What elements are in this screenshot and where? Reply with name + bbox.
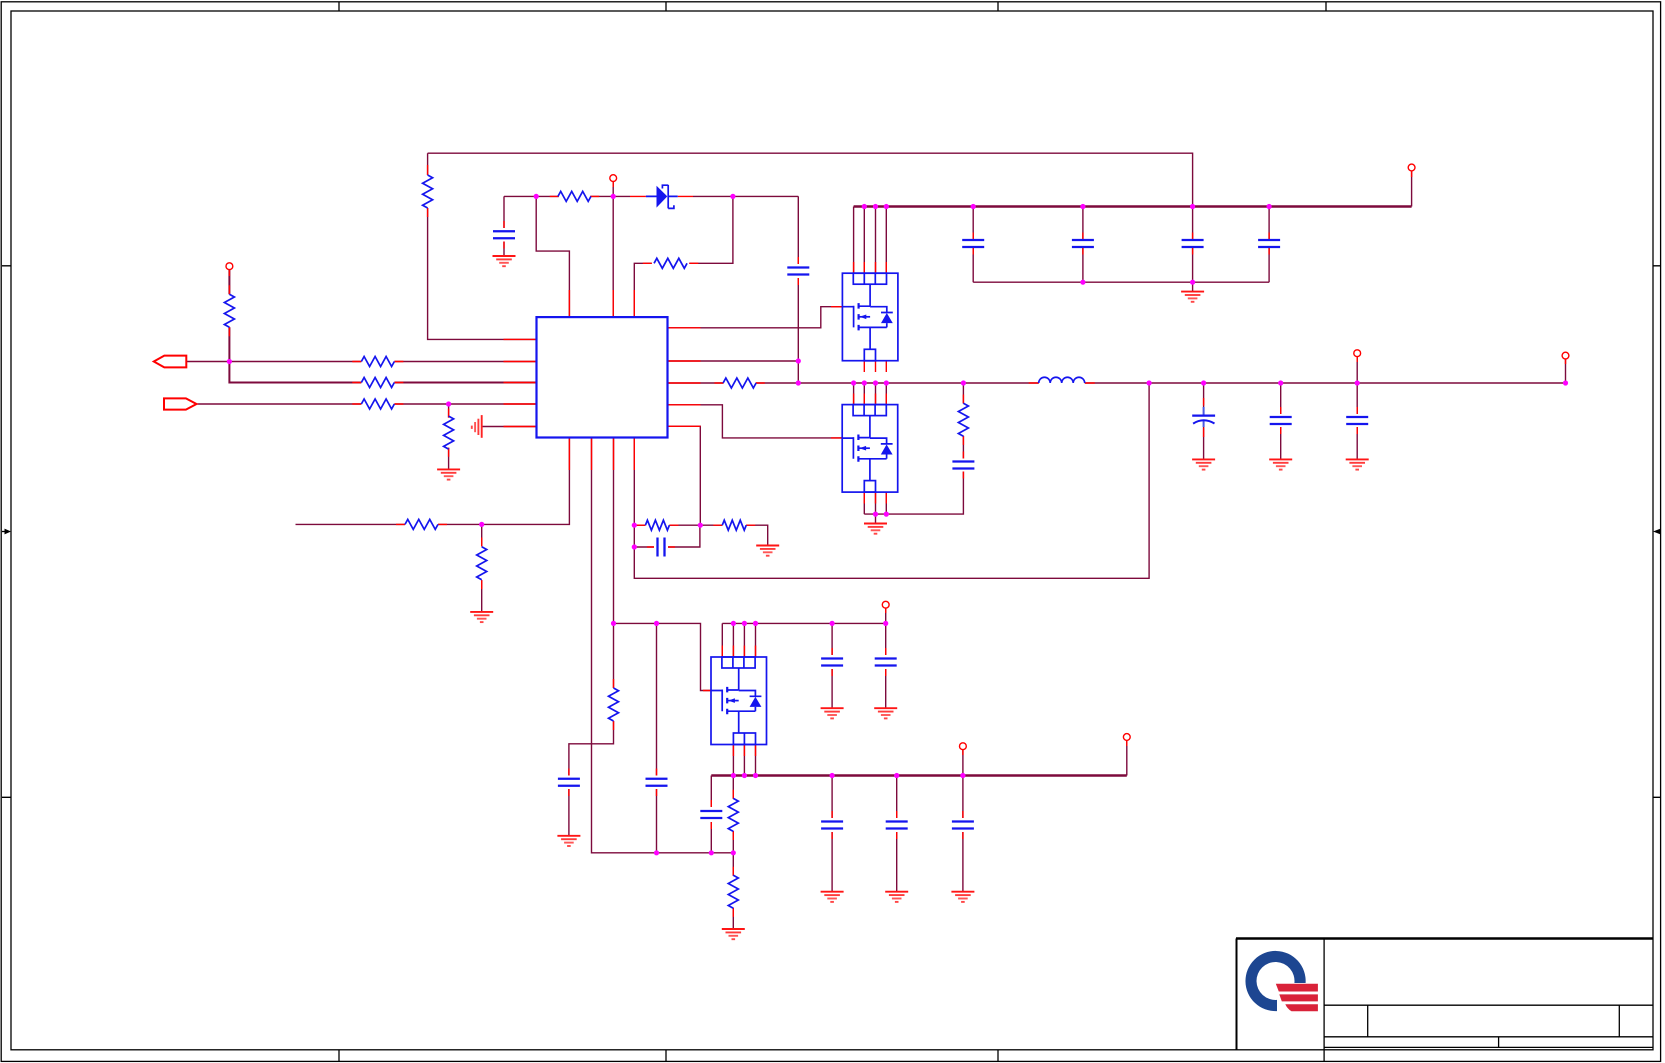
ground G8 <box>722 929 745 939</box>
ground G10 <box>874 708 897 718</box>
resistor R13 series <box>361 357 394 367</box>
wire Q1 gate <box>668 307 843 328</box>
wire Q1 drain columns <box>854 207 887 274</box>
resistor R10 vreg series <box>609 688 619 721</box>
wire feedback2 lower resistor <box>732 853 734 929</box>
wire testpoint stub TP2 <box>612 182 614 197</box>
wire U1 soft-start row <box>296 438 570 525</box>
ground G2 <box>1181 292 1204 302</box>
resistor R9 soft-start shunt <box>477 547 487 580</box>
node TP8 connector <box>1123 734 1130 741</box>
ground G13 <box>951 892 974 902</box>
TITLE BLOCK <box>1236 939 1653 1062</box>
wire red pin stubs U1 bottom <box>569 438 634 471</box>
node TP4 connector <box>1354 350 1361 357</box>
resistor R14 series <box>361 378 394 388</box>
wire VOUT cap columns <box>1204 357 1358 460</box>
wire VOUT right testpoint riser <box>1565 359 1567 383</box>
border tick marks left <box>2 266 11 798</box>
ground G16 <box>1346 459 1369 469</box>
wire VIN rail (thick) <box>854 205 1412 208</box>
resistor R1 <box>423 175 433 208</box>
capacitor C13 <box>875 659 897 666</box>
inductor L1 <box>1039 377 1085 383</box>
resistor R7 comp2 <box>722 520 746 530</box>
wire enable divider column <box>428 153 537 339</box>
resistor R16 shunt <box>444 416 454 449</box>
wire red stubs Q3 pins <box>703 646 756 757</box>
capacitor C2 boot <box>787 268 809 275</box>
node TP6 connector <box>882 601 889 608</box>
node TP7 connector <box>960 743 967 750</box>
border tick marks bottom <box>339 1050 998 1062</box>
wire red stubs capacitors <box>504 221 1357 839</box>
capacitor C8 comp <box>658 538 665 557</box>
border arrow right <box>1659 531 1661 533</box>
wire V5 rail <box>722 623 885 657</box>
wire V5 cap2 column and testpoint <box>885 608 887 708</box>
border tick marks right <box>1653 266 1661 798</box>
wire comp C segment <box>634 525 700 547</box>
wire VIN testpoint riser <box>1411 172 1413 207</box>
capacitor C10 <box>646 779 668 786</box>
wire snubber branch <box>864 383 963 514</box>
wire bypass cap column <box>503 196 505 256</box>
wire V5 cap1 column <box>831 623 833 708</box>
wire VCC node left <box>504 195 536 197</box>
ground G15 <box>1269 459 1292 469</box>
wire VOUT2 rail (thick) <box>711 774 1127 777</box>
wire SW rail left <box>668 382 1039 384</box>
capacitor C1 <box>493 231 515 238</box>
diode D1 zener <box>646 185 678 209</box>
wire U1 pgnd column to lower bus <box>592 438 734 853</box>
resistor R15 series <box>361 399 394 409</box>
resistor R12 port1 pull <box>224 294 234 327</box>
wire rail1 cap column <box>656 623 658 852</box>
capacitor C6 <box>1258 240 1280 247</box>
capacitor C3 <box>962 240 984 247</box>
transistor Q1 high-side MOSFET module <box>842 273 898 361</box>
wire VCC to U1 pin jog <box>536 196 569 317</box>
wire soft-start divider to ground <box>481 524 483 612</box>
wire red stubs Q1 pins <box>831 262 886 372</box>
capacitor C4 <box>1072 240 1094 247</box>
wire Q2 drain columns <box>854 383 887 405</box>
wire VIN cap columns <box>973 207 1269 283</box>
wire chassis lead <box>482 426 537 428</box>
wire VIN cap ground bus <box>973 282 1269 291</box>
ground G6 <box>864 524 887 534</box>
wire boot cap column <box>797 196 799 361</box>
op-amp U1 main controller IC <box>537 317 668 437</box>
ground G9 <box>821 708 844 718</box>
border tick marks top <box>339 2 1326 11</box>
wire BOOT branch down to U1 <box>634 196 733 317</box>
wire port2 divider to ground <box>448 404 450 469</box>
chassis ground symbol <box>472 415 482 438</box>
capacitor C16 <box>952 822 974 829</box>
wire port1 column and row to U1 <box>229 270 536 383</box>
port P1 output arrow <box>154 356 187 368</box>
transistor Q3 load-switch MOSFET module <box>711 657 767 745</box>
capacitor C19 <box>1346 417 1368 424</box>
capacitor C9 <box>558 779 580 786</box>
wire U1 connector circle column <box>612 196 614 317</box>
ground G11 <box>821 892 844 902</box>
wire red stubs resistors <box>229 165 963 917</box>
resistor R3 <box>654 258 687 268</box>
wire VOUT2 cap columns <box>832 750 963 892</box>
wire feedback sense loop <box>634 383 1149 578</box>
capacitor C11 <box>700 811 722 818</box>
capacitor C5 <box>1182 240 1204 247</box>
ground G12 <box>885 892 908 902</box>
wire U1 vreg column with R <box>569 438 614 836</box>
wire comp R segment <box>634 524 700 526</box>
ground G5 <box>756 546 779 556</box>
capacitor C18 <box>1270 417 1292 424</box>
node TP1 connector <box>226 263 233 270</box>
wire port1 row <box>187 361 537 363</box>
capacitor C12 <box>821 659 843 666</box>
node TP5 connector <box>1562 352 1569 359</box>
node TP3 connector <box>1408 164 1415 171</box>
wire port2 row <box>197 403 536 405</box>
transistor Q2 low-side MOSFET module <box>842 405 898 493</box>
capacitor C14 <box>821 822 843 829</box>
wire rail1 to Q3 gate <box>614 623 712 690</box>
resistor R17 feedback2 upper <box>728 798 738 831</box>
wire U1 comp pin branch <box>668 426 701 525</box>
ground G4 <box>470 612 493 622</box>
ground G7 <box>557 836 580 846</box>
wire comp R2 to ground <box>700 525 767 545</box>
resistor R2 <box>558 191 591 201</box>
resistor R8 soft-start series <box>405 519 438 529</box>
wire Q2 source ground stub <box>875 514 877 523</box>
wire feedback2 upper resistor <box>732 776 734 853</box>
wire Q2 source columns <box>864 492 886 514</box>
wire red pin stubs U1 right <box>668 328 701 427</box>
wire VCC row through R2 and D1 <box>536 195 798 197</box>
wire U1 right pin2 to boot cap <box>668 360 799 362</box>
resistor R5 snubber <box>958 403 968 436</box>
node TP2 connector <box>610 175 617 182</box>
wire boot cap to SW <box>797 361 799 383</box>
port P2 input arrow <box>164 398 197 409</box>
resistor R4 SW series <box>723 378 756 388</box>
border arrow left <box>2 531 5 533</box>
ground G14 <box>1192 459 1215 469</box>
wire red stubs testpoints <box>229 172 1565 756</box>
ground G1 <box>493 256 516 266</box>
capacitor C17 polarized <box>1192 407 1215 427</box>
wire Q2 gate <box>668 405 843 438</box>
resistor R6 comp <box>645 520 669 530</box>
wire VOUT2 testpoint riser <box>1126 741 1128 776</box>
wire Q3 source columns <box>733 745 755 776</box>
wire VOUT rail <box>1085 382 1566 384</box>
capacitor C7 snubber <box>952 462 974 469</box>
wire red pin stubs U1 top <box>569 290 634 317</box>
wire red stubs Q2 pins <box>831 394 886 504</box>
wire red pin stubs U1 left <box>504 339 537 426</box>
wire VOUT2 left cap column <box>710 776 712 853</box>
ground G3 <box>437 469 460 479</box>
company logo <box>1245 951 1317 1011</box>
resistor R11 feedback2 lower <box>728 875 738 908</box>
wire VIN top feed <box>428 153 1193 206</box>
wire red stubs inductor and zener <box>630 196 1095 383</box>
capacitor C15 <box>886 822 908 829</box>
